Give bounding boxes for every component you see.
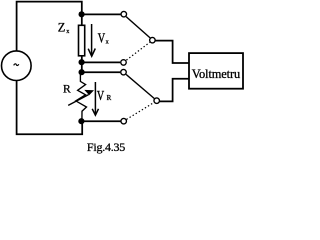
node A junction dot <box>79 11 85 17</box>
switch S1 dashed alternate position to contact 2 <box>126 42 149 60</box>
switch contact 1 <box>121 11 127 17</box>
svg-text:R: R <box>63 82 71 95</box>
svg-text:x: x <box>66 28 70 35</box>
wire Zx to node B <box>81 56 83 62</box>
label Vx <box>98 30 106 46</box>
svg-text:Z: Z <box>58 21 66 35</box>
wire switch S2 pivot to voltmeter <box>160 79 190 102</box>
wire node B to node C <box>81 62 83 72</box>
wire switch S1 pivot to voltmeter <box>155 41 189 63</box>
svg-text:x: x <box>106 38 110 45</box>
wire node A to switch contact 1 <box>82 13 121 15</box>
arrow VR <box>92 82 98 115</box>
wire node C to switch contact 3 <box>82 71 121 73</box>
svg-text:Fig.4.35: Fig.4.35 <box>87 140 125 154</box>
switch S2 pivot <box>154 98 160 104</box>
node C junction dot <box>79 69 85 75</box>
switch contact 3 <box>121 69 127 75</box>
wire node B to switch contact 2 <box>82 61 121 63</box>
switch contact 2 <box>121 60 127 66</box>
wire bottom-left loop from source to node D <box>17 80 83 134</box>
svg-text:Voltmetru: Voltmetru <box>192 67 240 81</box>
wire node A to Zx <box>81 14 83 25</box>
variable resistor arrow through R <box>68 90 94 106</box>
impedance Zx body <box>79 25 85 56</box>
resistor R zigzag <box>76 72 87 121</box>
label VR <box>97 88 105 104</box>
voltmeter U1 box <box>189 53 243 89</box>
switch S1 wiper closed to contact 1 <box>126 17 150 38</box>
svg-text:V: V <box>97 88 105 104</box>
svg-text:V: V <box>98 30 106 46</box>
switch S2 wiper closed to contact 3 <box>126 74 154 98</box>
AC source tilde symbol <box>14 64 19 66</box>
node D junction dot <box>78 118 84 124</box>
switch contact 4 <box>121 118 127 124</box>
svg-text:R: R <box>107 94 112 102</box>
arrow Vx <box>88 24 95 56</box>
wire top-left loop from source to node A <box>17 2 82 52</box>
wire node D to switch contact 4 <box>82 120 121 122</box>
AC source V1 <box>1 51 31 81</box>
node B junction dot <box>79 59 85 65</box>
switch S2 dashed alternate position to contact 4 <box>127 102 155 119</box>
switch S1 pivot <box>150 37 156 43</box>
